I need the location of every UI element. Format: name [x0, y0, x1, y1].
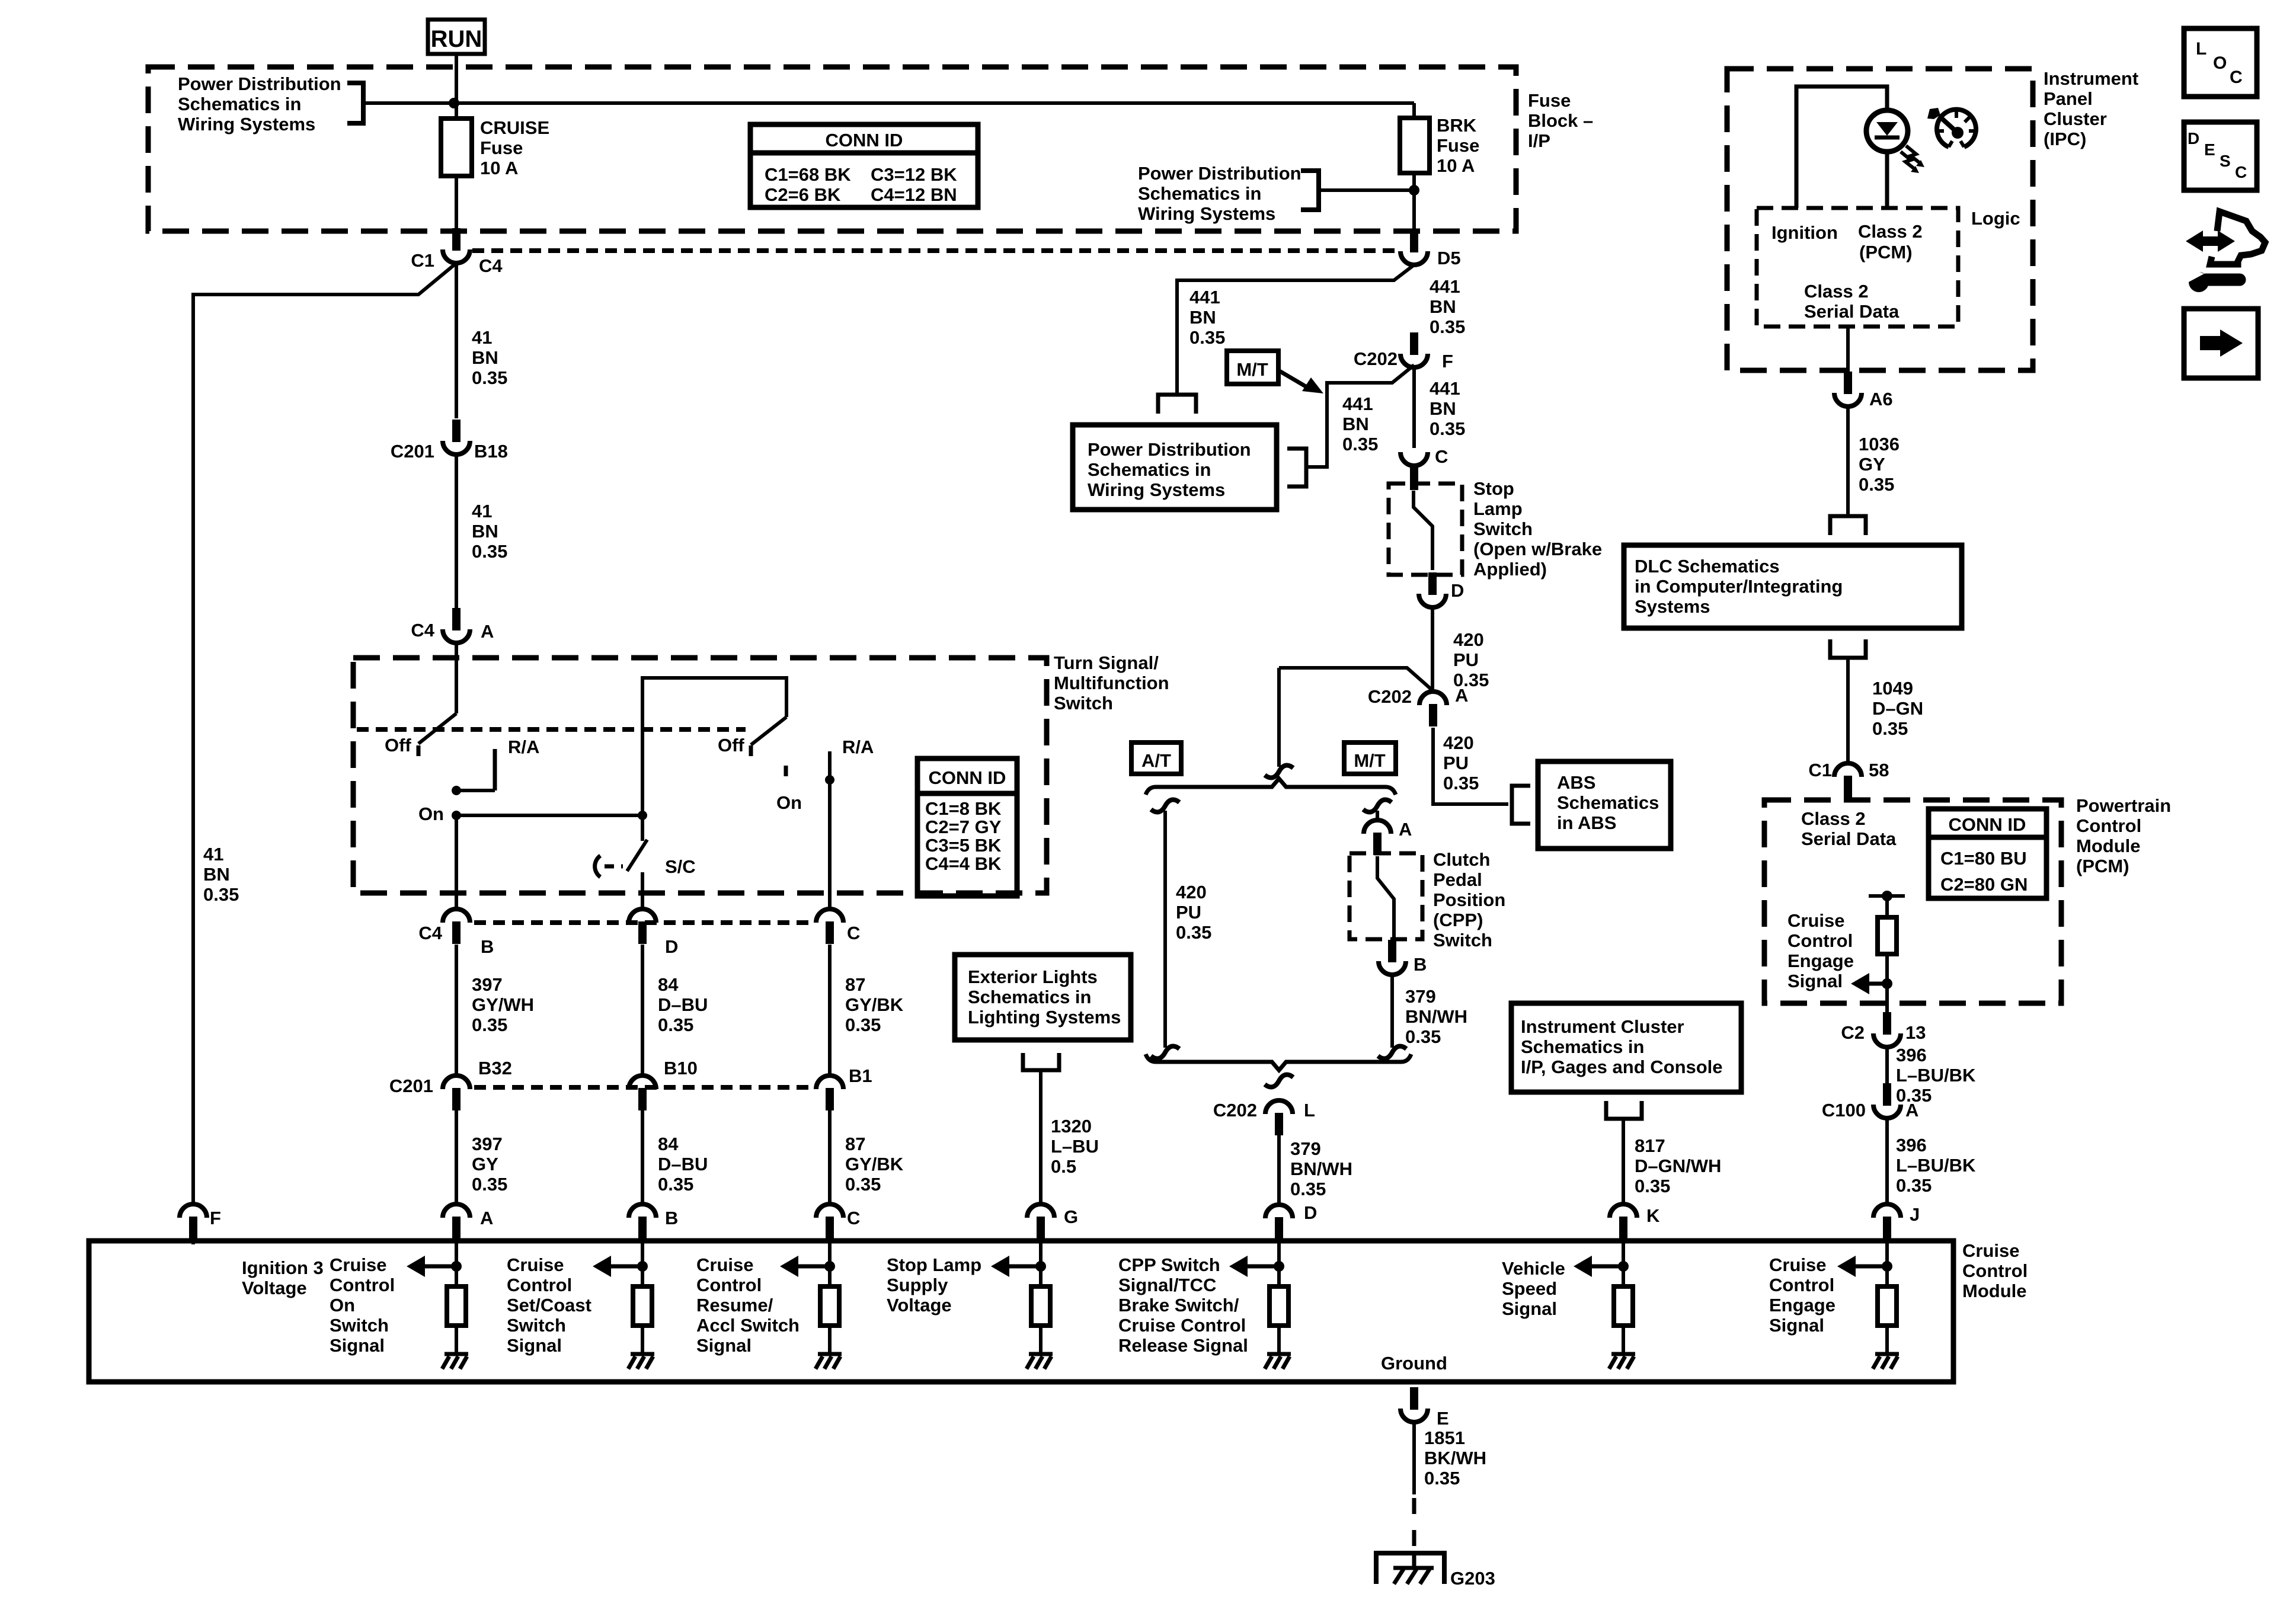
- label 420 PU 0.35 (A/T path): [1176, 882, 1211, 943]
- M/T path curl top: [1363, 799, 1392, 812]
- svg-text:A/T: A/T: [1141, 750, 1171, 771]
- svg-text:C4: C4: [411, 620, 434, 641]
- wire bus from bracket to BRK fuse: [363, 101, 1414, 105]
- svg-text:DLC Schematics: DLC Schematics: [1635, 556, 1780, 577]
- label Stop Lamp Supply Voltage: [887, 1254, 981, 1315]
- svg-text:Cruise: Cruise: [507, 1254, 564, 1275]
- label Ignition: [1771, 222, 1838, 243]
- wire pin column x=3184: [1885, 1243, 1889, 1286]
- wire: [828, 1326, 832, 1354]
- svg-text:379: 379: [1405, 986, 1436, 1007]
- svg-text:G: G: [1064, 1206, 1078, 1227]
- svg-text:441: 441: [1430, 276, 1460, 297]
- bracket to Power Distribution box (right side): [1287, 449, 1306, 486]
- dotted line inside switch: [357, 727, 746, 732]
- svg-text:Exterior Lights: Exterior Lights: [968, 966, 1098, 987]
- wire: [1039, 1326, 1043, 1354]
- R/A contact pole 1: [493, 749, 497, 790]
- svg-text:Instrument Cluster: Instrument Cluster: [1521, 1016, 1684, 1037]
- svg-text:C4: C4: [418, 923, 442, 943]
- CONN ID table (PCM): [1929, 809, 2046, 898]
- wire: [1277, 1326, 1281, 1354]
- svg-text:BN/WH: BN/WH: [1405, 1006, 1467, 1027]
- label 396 L-BU/BK 0.35: [1896, 1045, 1976, 1106]
- svg-text:BN: BN: [1430, 296, 1456, 317]
- wire 420 PU branch (A/T M/T select): [1279, 668, 1432, 690]
- svg-text:Switch: Switch: [1433, 930, 1492, 950]
- svg-text:BN: BN: [1342, 414, 1369, 434]
- svg-text:Logic: Logic: [1971, 208, 2020, 229]
- fuse CRUISE 10A: [441, 119, 472, 176]
- label 441 BN 0.35 (M/T branch): [1342, 393, 1378, 454]
- label Cruise Control Engage Signal (PCM): [1787, 910, 1854, 991]
- wire: [1885, 1326, 1889, 1354]
- icon LOC box: [2184, 28, 2257, 97]
- wire to CPP connector A: [1376, 811, 1379, 821]
- svg-text:Switch: Switch: [1054, 693, 1113, 713]
- lower brace: [1146, 1054, 1411, 1070]
- svg-text:M/T: M/T: [1354, 750, 1385, 771]
- Instrument Panel Cluster dashed box: [1727, 69, 2033, 370]
- svg-text:Stop: Stop: [1473, 478, 1514, 499]
- connector F (module, ignition 3): [180, 1204, 221, 1239]
- svg-text:L: L: [1304, 1100, 1315, 1121]
- label Stop Lamp Switch: [1473, 478, 1602, 580]
- connector A (CPP): [1364, 819, 1412, 855]
- label 441 BN 0.35 (D5-F): [1430, 276, 1465, 337]
- svg-text:A: A: [1455, 685, 1468, 706]
- S/C actuator dashes: [605, 865, 623, 869]
- svg-text:0.35: 0.35: [1342, 434, 1378, 454]
- svg-text:D: D: [665, 936, 678, 957]
- wire: [641, 1326, 644, 1354]
- resistor: [1614, 1286, 1633, 1326]
- Exterior Lights box: [955, 955, 1131, 1040]
- label Vehicle Speed Signal: [1502, 1258, 1565, 1319]
- svg-text:397: 397: [472, 1134, 503, 1154]
- bracket above DLC box: [1830, 516, 1866, 535]
- label 41 BN 0.35: [472, 501, 507, 562]
- svg-text:420: 420: [1443, 732, 1474, 753]
- svg-text:C202: C202: [1213, 1100, 1257, 1121]
- svg-text:Schematics in: Schematics in: [178, 94, 301, 114]
- svg-text:(Open w/Brake: (Open w/Brake: [1473, 539, 1602, 559]
- resistor: [1269, 1286, 1288, 1326]
- svg-text:Control: Control: [507, 1275, 572, 1295]
- switch pole 1 blade (to Off): [418, 713, 456, 744]
- label 397 GY 0.35: [472, 1134, 507, 1195]
- svg-text:Brake Switch/: Brake Switch/: [1118, 1295, 1239, 1315]
- wire C202 A to ABS: [1433, 728, 1508, 804]
- svg-text:0.35: 0.35: [1430, 316, 1465, 337]
- dotted connector line C4 row: [472, 248, 1399, 253]
- svg-text:BN: BN: [472, 347, 498, 368]
- svg-text:CONN ID: CONN ID: [826, 130, 903, 151]
- svg-text:Engage: Engage: [1787, 950, 1854, 971]
- resistor: [820, 1286, 839, 1326]
- svg-text:Multifunction: Multifunction: [1054, 673, 1169, 693]
- wire 41 BN col1: [455, 263, 458, 418]
- svg-text:Systems: Systems: [1635, 596, 1710, 617]
- svg-text:Class 2: Class 2: [1804, 281, 1869, 302]
- svg-text:Powertrain: Powertrain: [2076, 795, 2171, 816]
- label 441 BN 0.35 (F-C): [1430, 378, 1465, 439]
- label Powertrain Control Module (PCM): [2076, 795, 2171, 876]
- arrow (signal direction): [797, 1265, 830, 1269]
- connector J (module): [1873, 1204, 1920, 1239]
- svg-text:BK/WH: BK/WH: [1424, 1448, 1486, 1468]
- label Power Distribution Schematics in Wiring Systems (left): [178, 73, 341, 135]
- svg-text:1049: 1049: [1872, 678, 1913, 699]
- svg-text:CONN ID: CONN ID: [929, 767, 1006, 788]
- wire: [455, 1326, 458, 1354]
- junction dot On: [452, 811, 461, 820]
- wire 817: [1622, 1119, 1625, 1204]
- node RUN (ignition feed): [428, 20, 485, 54]
- turn signal multifunction switch dashed box: [353, 658, 1047, 893]
- svg-text:Control: Control: [1787, 930, 1853, 951]
- svg-text:Power Distribution: Power Distribution: [1088, 439, 1251, 460]
- logic dashed box: [1757, 208, 1958, 327]
- gauge icon: [1927, 108, 1976, 147]
- fuse BRK 10A branch: [1412, 103, 1416, 118]
- bracket above Power Distribution box: [1158, 395, 1196, 414]
- svg-text:0.35: 0.35: [1176, 922, 1211, 943]
- icon diagnostic (arrows and wrench): [2184, 212, 2265, 292]
- svg-text:(IPC): (IPC): [2044, 129, 2086, 149]
- connector C1/C4 (fuse block out): [411, 228, 503, 276]
- Powertrain Control Module dashed box: [1764, 800, 2061, 1003]
- wire corner to brace: [1277, 668, 1281, 767]
- svg-text:41: 41: [472, 501, 492, 521]
- A/T path curl top: [1151, 799, 1179, 812]
- svg-text:Serial Data: Serial Data: [1804, 301, 1900, 322]
- svg-text:F: F: [210, 1208, 221, 1228]
- svg-text:Vehicle: Vehicle: [1502, 1258, 1565, 1279]
- svg-text:BN: BN: [472, 521, 498, 542]
- svg-text:D–GN: D–GN: [1872, 698, 1923, 719]
- connector C202 A: [1368, 685, 1469, 726]
- label CRUISE Fuse 10 A: [480, 117, 549, 178]
- wire pin column x=1400: [828, 1243, 832, 1286]
- svg-text:Fuse: Fuse: [1528, 90, 1571, 111]
- wire break curl below brace: [1265, 1074, 1293, 1087]
- svg-text:1320: 1320: [1051, 1116, 1092, 1137]
- svg-text:GY: GY: [1859, 454, 1885, 475]
- svg-text:Off: Off: [718, 735, 744, 756]
- svg-text:817: 817: [1635, 1135, 1665, 1156]
- ground G203: [1376, 1553, 1495, 1589]
- S/C lower contact: [641, 872, 644, 909]
- svg-text:379: 379: [1290, 1138, 1321, 1159]
- svg-text:Lighting Systems: Lighting Systems: [968, 1007, 1121, 1028]
- svg-text:Class 2: Class 2: [1801, 808, 1866, 829]
- label Instrument Panel Cluster (IPC): [2044, 68, 2138, 149]
- svg-text:420: 420: [1176, 882, 1207, 902]
- svg-text:Cruise Control: Cruise Control: [1118, 1315, 1246, 1336]
- junction dot: [637, 1261, 648, 1272]
- svg-text:C: C: [1435, 446, 1448, 467]
- svg-text:Control: Control: [2076, 815, 2141, 836]
- svg-text:M/T: M/T: [1236, 359, 1268, 380]
- label 41 BN 0.35: [472, 327, 507, 388]
- wire col B lower: [641, 1110, 644, 1204]
- CPP switch blade: [1377, 856, 1394, 941]
- svg-text:441: 441: [1342, 393, 1373, 414]
- S/C blade: [627, 840, 647, 871]
- wire pin column x=1756: [1039, 1243, 1043, 1286]
- stop lamp switch dashed box: [1389, 484, 1462, 575]
- svg-text:41: 41: [203, 844, 223, 865]
- label Class 2 Serial Data: [1804, 281, 1900, 322]
- svg-text:C4: C4: [479, 255, 503, 276]
- svg-text:J: J: [1910, 1204, 1920, 1225]
- svg-text:Pedal: Pedal: [1433, 869, 1482, 890]
- resistor: [1031, 1286, 1050, 1326]
- svg-text:C202: C202: [1368, 686, 1412, 707]
- junction dot S/C: [638, 811, 647, 820]
- bracket to ABS box: [1512, 786, 1530, 824]
- wire fuse to connector C1: [455, 176, 458, 232]
- svg-text:C2: C2: [1841, 1022, 1865, 1043]
- svg-text:BN: BN: [203, 864, 230, 885]
- svg-text:Clutch: Clutch: [1433, 849, 1490, 870]
- svg-text:Voltage: Voltage: [242, 1278, 307, 1298]
- upper brace: [1146, 779, 1396, 795]
- svg-text:On: On: [418, 804, 444, 824]
- svg-text:GY: GY: [472, 1154, 498, 1174]
- svg-text:Ignition: Ignition: [1771, 222, 1838, 243]
- ground: [1267, 1352, 1291, 1356]
- svg-text:Class 2: Class 2: [1858, 221, 1923, 242]
- arrow (signal direction): [1591, 1265, 1623, 1269]
- svg-text:Instrument: Instrument: [2044, 68, 2138, 89]
- label Cruise Control Module: [1962, 1240, 2028, 1301]
- junction dot: [1618, 1261, 1629, 1272]
- svg-text:Cruise: Cruise: [1787, 910, 1844, 931]
- svg-text:58: 58: [1869, 760, 1889, 780]
- label 41 BN 0.35 (left run): [203, 844, 239, 905]
- svg-text:0.35: 0.35: [1635, 1176, 1670, 1196]
- svg-text:84: 84: [658, 1134, 679, 1154]
- svg-text:Power Distribution: Power Distribution: [1138, 163, 1302, 184]
- svg-text:Release Signal: Release Signal: [1118, 1335, 1248, 1356]
- svg-text:S/C: S/C: [665, 856, 696, 877]
- connector C100 A: [1822, 1083, 1919, 1121]
- DLC Schematics box: [1624, 545, 1962, 628]
- connector D5 (fuse block out right): [1400, 230, 1461, 268]
- svg-text:On: On: [776, 792, 802, 813]
- svg-text:Turn Signal/: Turn Signal/: [1054, 652, 1159, 673]
- label Logic: [1971, 208, 2020, 229]
- svg-text:0.35: 0.35: [472, 367, 507, 388]
- svg-text:B: B: [1414, 954, 1427, 975]
- label 379 BN/WH 0.35: [1290, 1138, 1352, 1199]
- svg-text:Lamp: Lamp: [1473, 498, 1523, 519]
- svg-text:Power Distribution: Power Distribution: [178, 73, 341, 94]
- svg-text:B1: B1: [849, 1065, 872, 1086]
- LED light arrows: [1901, 146, 1924, 173]
- svg-text:Signal: Signal: [330, 1335, 385, 1356]
- svg-text:in ABS: in ABS: [1557, 812, 1616, 833]
- label Cruise Control On Switch Signal: [330, 1254, 395, 1356]
- svg-text:0.35: 0.35: [1859, 474, 1894, 495]
- svg-text:C: C: [2230, 68, 2243, 87]
- svg-text:E: E: [2204, 140, 2215, 159]
- svg-text:Switch: Switch: [330, 1315, 389, 1336]
- svg-text:Cruise: Cruise: [330, 1254, 386, 1275]
- svg-text:C4=12 BN: C4=12 BN: [871, 184, 957, 205]
- stop lamp switch blade: [1414, 491, 1432, 570]
- wire pole2 down: [828, 780, 832, 909]
- connector C201 B18: [391, 420, 508, 462]
- arrow (signal direction): [1246, 1265, 1279, 1269]
- wire E down: [1412, 1422, 1416, 1494]
- svg-text:GY/BK: GY/BK: [845, 994, 904, 1015]
- svg-text:Signal: Signal: [1769, 1315, 1824, 1336]
- label 1036 GY 0.35: [1859, 434, 1900, 495]
- svg-text:0.35: 0.35: [845, 1014, 881, 1035]
- svg-text:Block –: Block –: [1528, 110, 1593, 131]
- svg-text:GY/WH: GY/WH: [472, 994, 534, 1015]
- LED indicator: [1866, 110, 1908, 152]
- wire dashed to G203: [1412, 1498, 1416, 1551]
- Off contact pole 2: [749, 745, 753, 756]
- wire: [1885, 896, 1889, 917]
- svg-text:A: A: [481, 621, 494, 642]
- svg-text:CRUISE: CRUISE: [480, 117, 549, 138]
- wire D to C202 A: [1431, 607, 1434, 692]
- svg-text:Control: Control: [1962, 1260, 2028, 1281]
- svg-text:C201: C201: [389, 1076, 433, 1096]
- svg-text:0.35: 0.35: [472, 541, 507, 562]
- svg-text:C: C: [2235, 163, 2247, 181]
- svg-text:A: A: [1399, 819, 1412, 840]
- svg-text:C: C: [847, 1208, 860, 1228]
- svg-text:I/P: I/P: [1528, 130, 1550, 151]
- arrow (signal direction): [424, 1265, 456, 1269]
- label 379 BN/WH 0.35: [1405, 986, 1467, 1047]
- svg-text:Engage: Engage: [1769, 1295, 1835, 1315]
- switch pole 2 blade (to Off): [751, 717, 786, 745]
- svg-text:Applied): Applied): [1473, 559, 1547, 580]
- ground: [1875, 1352, 1899, 1356]
- cruise control module box: [89, 1241, 1953, 1382]
- svg-text:L: L: [2196, 39, 2207, 59]
- svg-text:On: On: [330, 1295, 355, 1315]
- svg-text:C100: C100: [1822, 1100, 1866, 1121]
- svg-text:Schematics: Schematics: [1557, 792, 1659, 813]
- svg-text:Control: Control: [696, 1275, 762, 1295]
- svg-text:C1: C1: [1808, 760, 1832, 780]
- junction dot: [451, 1261, 462, 1272]
- label 441 BN 0.35 (to PD box): [1189, 287, 1225, 348]
- svg-text:0.35: 0.35: [1290, 1179, 1326, 1199]
- CPP switch dashed box: [1350, 853, 1422, 939]
- arrow Cruise Control Engage Signal: [1869, 982, 1887, 986]
- label Class 2 (PCM): [1858, 221, 1923, 263]
- svg-text:441: 441: [1430, 378, 1460, 399]
- svg-text:0.35: 0.35: [1424, 1468, 1460, 1489]
- svg-text:0.35: 0.35: [1896, 1175, 1932, 1196]
- A/T flag box: [1131, 742, 1181, 774]
- wire pin column x=770: [455, 1243, 458, 1286]
- wire LED to logic: [1885, 152, 1889, 208]
- svg-text:R/A: R/A: [842, 737, 874, 757]
- label Cruise Control Set/Coast Switch Signal: [507, 1254, 591, 1356]
- label Class 2 Serial Data (PCM): [1801, 808, 1897, 849]
- connector C202 L: [1213, 1100, 1315, 1135]
- wire 1320 L-BU: [1039, 1070, 1043, 1204]
- label 84 D-BU 0.35: [658, 974, 708, 1035]
- label 420 PU 0.35: [1453, 629, 1489, 690]
- wire BRK fuse down: [1412, 173, 1416, 232]
- ground: [445, 1352, 468, 1356]
- svg-text:Signal/TCC: Signal/TCC: [1118, 1275, 1216, 1295]
- wire pole1 down: [455, 815, 458, 909]
- PCM internal T junction: [1869, 894, 1905, 898]
- wire break curl: [1265, 765, 1293, 777]
- connector C (into stop lamp switch): [1400, 446, 1448, 490]
- svg-text:CONN ID: CONN ID: [1949, 814, 2026, 835]
- svg-text:BN/WH: BN/WH: [1290, 1158, 1352, 1179]
- svg-text:C4=4 BK: C4=4 BK: [925, 853, 1002, 874]
- R/A contact pole 2: [828, 751, 832, 780]
- svg-text:Speed: Speed: [1502, 1278, 1557, 1299]
- svg-text:13: 13: [1905, 1022, 1926, 1043]
- svg-text:Signal: Signal: [507, 1335, 562, 1356]
- svg-text:Control: Control: [330, 1275, 395, 1295]
- connector C202 F: [1354, 332, 1453, 372]
- connector E (module ground out): [1400, 1387, 1449, 1429]
- svg-text:A6: A6: [1869, 389, 1893, 409]
- svg-text:C2=80 GN: C2=80 GN: [1940, 874, 2028, 895]
- arrow (signal direction): [1008, 1265, 1041, 1269]
- svg-text:Ignition 3: Ignition 3: [242, 1257, 324, 1278]
- svg-text:Schematics in: Schematics in: [1521, 1036, 1644, 1057]
- ground: [1611, 1352, 1635, 1356]
- label Power Distribution Schematics in Wiring Systems (mid): [1138, 163, 1302, 224]
- connector B (module): [629, 1204, 678, 1239]
- svg-text:L–BU: L–BU: [1051, 1136, 1099, 1157]
- svg-text:D: D: [1451, 580, 1464, 601]
- wire to R/A: [456, 789, 495, 792]
- svg-text:Voltage: Voltage: [887, 1295, 952, 1315]
- svg-text:1036: 1036: [1859, 434, 1900, 454]
- svg-text:L–BU/BK: L–BU/BK: [1896, 1155, 1976, 1176]
- wire into switch: [455, 643, 458, 713]
- label Cruise Control Resume/Accl Switch Signal: [696, 1254, 800, 1356]
- wire col C: [828, 945, 832, 1076]
- svg-text:Position: Position: [1433, 889, 1505, 910]
- svg-text:441: 441: [1189, 287, 1220, 308]
- svg-text:A: A: [1905, 1100, 1918, 1121]
- wire col A lower: [455, 1110, 458, 1204]
- svg-text:Set/Coast: Set/Coast: [507, 1295, 591, 1315]
- svg-text:S: S: [2220, 152, 2231, 170]
- label 817 D-GN/WH 0.35: [1635, 1135, 1721, 1196]
- wire col C lower: [828, 1110, 832, 1204]
- svg-text:Cruise: Cruise: [1769, 1254, 1826, 1275]
- svg-text:420: 420: [1453, 629, 1484, 650]
- svg-text:BN: BN: [1189, 307, 1216, 328]
- svg-text:Serial Data: Serial Data: [1801, 828, 1897, 849]
- svg-text:10 A: 10 A: [480, 158, 518, 178]
- svg-text:BRK: BRK: [1437, 115, 1477, 136]
- wire pin column x=2739: [1622, 1243, 1625, 1286]
- connector B (CPP out): [1379, 940, 1427, 975]
- junction dot: [1882, 978, 1892, 989]
